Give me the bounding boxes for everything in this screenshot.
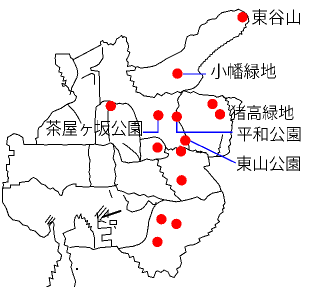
canal slash 2 (Horikawa) [98, 208, 107, 218]
park dot (unlabeled, Tempaku north) [176, 175, 186, 185]
ward boundary: Meito-ku east edge [220, 96, 232, 157]
park dot (unlabeled, Nagoya castle area) [106, 101, 116, 111]
ward boundary: southwest outer chain [35, 104, 67, 144]
ward boundary: Tempaku northeast wiggle [216, 135, 222, 157]
park dot Heiwa park [172, 112, 182, 122]
ward boundary: Nishi/Nakamura branch southeast [68, 104, 82, 123]
ward boundary: Chikusa west blob [140, 137, 169, 162]
Meito south wiggle west part [196, 152, 206, 153]
park dot Higashiyama park [180, 135, 190, 145]
ward boundary: west arc bump and west steps [3, 134, 62, 287]
label text 猪高緑地 [230, 105, 293, 120]
ward boundary: Minami/Midori vertical river line [118, 202, 156, 248]
label line Chayagasaka park [143, 121, 158, 133]
park dot (unlabeled, Tsurumai area) [152, 142, 162, 152]
park dot (unlabeled, north Meito) [207, 99, 217, 109]
ward boundary: Nakamura south wiggle [3, 178, 118, 196]
ward boundary: Nishi/Kita vertical [91, 48, 104, 104]
ward boundary: Chikusa/Showa bumpy line east to Meito south [166, 146, 221, 157]
label text 小幡緑地 [211, 63, 276, 79]
label line Higashiyama park [189, 140, 236, 163]
port inlet east bank [63, 228, 76, 287]
canal slash 3 (Horikawa) [100, 210, 109, 220]
park dot (unlabeled, Midori east) [171, 219, 181, 229]
label text 平和公園 [237, 127, 300, 142]
ward boundary: Tempaku east diagonal [204, 157, 222, 191]
ward boundary: Chikusa/Meito vertical [176, 91, 189, 151]
ward boundary: southeast outer staircase (Midori-ku) [70, 191, 225, 278]
ward boundary: north outer edge and Moriyama arm (upper) [56, 9, 249, 90]
ward boundary: Tempaku river squiggle [124, 196, 165, 213]
ward boundary: Higashi-ku vertical [108, 111, 109, 142]
park dot Obata ryokuchi [172, 68, 182, 78]
port spiky docks [75, 214, 94, 248]
ward boundary: Minami/Midori north line [117, 190, 221, 202]
park dot Itaka ryokuchi [215, 109, 225, 119]
Atsuta west tick [110, 191, 113, 198]
island mark [76, 268, 78, 270]
river detail stub [82, 73, 95, 84]
canal slash west 2 [48, 217, 53, 224]
ward boundary: city-centre horizontal under Chayagasaka dot [96, 101, 140, 140]
port rectangle dock [110, 221, 117, 225]
canal vertical tick [107, 211, 109, 218]
ward boundary: Naka-ku north horizontal [24, 143, 140, 163]
ward boundary: Kita-ku southeast / Yada river [126, 67, 183, 97]
park dot (unlabeled, Midori north) [156, 214, 166, 224]
park dot Togokusan [237, 12, 247, 22]
canal slash 1 (Horikawa) [95, 206, 104, 216]
river Shonai inner arc [70, 60, 78, 95]
park dot (unlabeled, Odaka area) [152, 237, 162, 247]
canal bold stroke [103, 211, 120, 217]
ward boundary: Meito-ku north edge [183, 91, 242, 105]
label text 東山公園 [237, 156, 301, 171]
ward boundary: Naka/Atsuta west vertical [113, 144, 117, 190]
port dock link [73, 218, 76, 229]
canal slash west 1 [45, 216, 50, 223]
ward boundary: Mizuho southeast staircase [156, 159, 181, 200]
ward boundary: Naka-ku west vertical [94, 109, 97, 145]
port pier tick [98, 221, 106, 223]
label text 茶屋ヶ坂公園 [46, 120, 142, 136]
park dot Chayagasaka park [153, 110, 163, 120]
park dot (unlabeled, Higashiyama south) [176, 146, 186, 156]
label text 東谷山 [252, 9, 300, 25]
ward boundary: Higashi/Chikusa diagonal [123, 143, 140, 161]
port rectangle tick [114, 226, 117, 228]
label line Heiwa park [177, 122, 233, 132]
port S-shaped pier [97, 213, 112, 247]
ward boundary: west outer (Nishi-ku riverline) [55, 54, 76, 104]
canal slash west 3 [50, 218, 55, 225]
ward boundary: Nakamura east vertical [89, 146, 92, 187]
label line Obata ryokuchi [183, 73, 206, 75]
